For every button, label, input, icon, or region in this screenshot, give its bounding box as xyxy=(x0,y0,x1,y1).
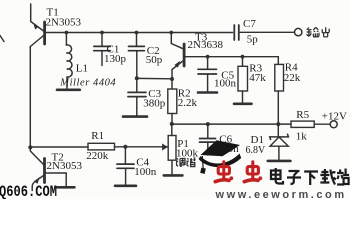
wire T3 base bus xyxy=(186,56,279,58)
wire R1 feed xyxy=(30,146,88,148)
capacitor C1 xyxy=(94,33,111,66)
resistor R1 xyxy=(88,143,168,150)
capacitor C3 xyxy=(128,78,146,115)
capacitor C2 xyxy=(129,33,145,79)
capacitor C7 xyxy=(234,25,239,40)
ground (R3) xyxy=(234,103,252,106)
capacitor C6 xyxy=(200,124,216,155)
svg-text:380p: 380p xyxy=(143,98,166,110)
watermark 电子下载站 xyxy=(271,168,349,185)
svg-text:100n: 100n xyxy=(214,77,237,89)
wire T1 collector down xyxy=(29,47,31,148)
wire C7 to output terminal xyxy=(240,31,294,33)
ground (C5) xyxy=(198,91,217,94)
ground (P1) xyxy=(164,174,183,177)
node B (rail/C1) xyxy=(100,31,104,35)
zener diode D1 xyxy=(270,124,289,160)
node C (rail/C2) xyxy=(135,31,139,35)
wire +12V rail xyxy=(172,123,291,125)
transistor T3 xyxy=(171,33,184,80)
resistor R3 xyxy=(238,57,248,103)
ground (T2 base) xyxy=(57,186,74,189)
wire emitter bus xyxy=(137,77,172,79)
svg-text:100n: 100n xyxy=(134,166,157,178)
svg-text:5p: 5p xyxy=(247,33,258,45)
resistor R5 xyxy=(291,121,330,127)
wire top rail xyxy=(45,32,233,34)
node F (T3 emitter/R2) xyxy=(170,77,174,81)
ground (C4) xyxy=(115,185,136,188)
node I (rail/R2/P1) xyxy=(170,122,174,126)
ground (D1) xyxy=(268,160,291,163)
svg-text:1k: 1k xyxy=(296,131,308,143)
potentiometer P1 xyxy=(162,124,176,174)
label 调谐 (tuning) xyxy=(177,158,196,167)
watermark graduation cap xyxy=(199,140,242,174)
inductor L1 xyxy=(66,33,72,89)
node A (rail/L1) xyxy=(65,31,69,35)
svg-text:Miller 4404: Miller 4404 xyxy=(59,77,116,88)
svg-text:R5: R5 xyxy=(296,109,309,121)
svg-text:50p: 50p xyxy=(146,54,163,66)
node L (T1 col/T2 col/R1) xyxy=(28,145,32,149)
ground (L1) xyxy=(57,89,80,92)
node H (base bus/R3) xyxy=(241,55,245,59)
resistor R4 xyxy=(275,57,284,125)
node K (rail/R4/D1) xyxy=(276,122,280,126)
svg-text:2N3053: 2N3053 xyxy=(47,160,83,172)
label 输出 (output) xyxy=(307,27,330,37)
svg-text:22k: 22k xyxy=(284,72,301,84)
svg-text:47k: 47k xyxy=(249,72,266,84)
transistor T2 xyxy=(30,147,66,190)
svg-text:2.2k: 2.2k xyxy=(178,97,198,109)
svg-text:Q606.COM: Q606.COM xyxy=(0,183,57,199)
ground (C3) xyxy=(123,115,147,118)
transistor T1 xyxy=(30,4,44,47)
svg-text:2N3053: 2N3053 xyxy=(46,17,82,29)
svg-text:130p: 130p xyxy=(104,53,127,65)
svg-text:+12V: +12V xyxy=(322,111,347,123)
resistor R2 xyxy=(168,79,177,124)
capacitor C5 xyxy=(198,57,217,92)
watermark 虫虫 (red bugs) xyxy=(215,162,262,182)
node E (rail/T3 collector) xyxy=(169,31,173,35)
terminal output xyxy=(295,28,302,35)
terminal +12V xyxy=(330,121,337,128)
svg-text:220k: 220k xyxy=(86,150,109,162)
svg-text:C7: C7 xyxy=(243,18,256,30)
node G (base bus/C5) xyxy=(206,55,210,59)
stray mark left edge xyxy=(0,36,4,42)
node D (C2/C3/wire) xyxy=(135,76,139,80)
node J (rail/C6) xyxy=(206,122,210,126)
svg-text:2N3638: 2N3638 xyxy=(188,39,224,51)
svg-text:L1: L1 xyxy=(76,63,88,75)
capacitor C4 xyxy=(117,147,134,185)
svg-text:R1: R1 xyxy=(91,130,104,142)
svg-text:www.eeworm.com: www.eeworm.com xyxy=(215,189,347,199)
node M (R1/C4) xyxy=(123,145,127,149)
svg-text:6.8V: 6.8V xyxy=(246,145,267,156)
